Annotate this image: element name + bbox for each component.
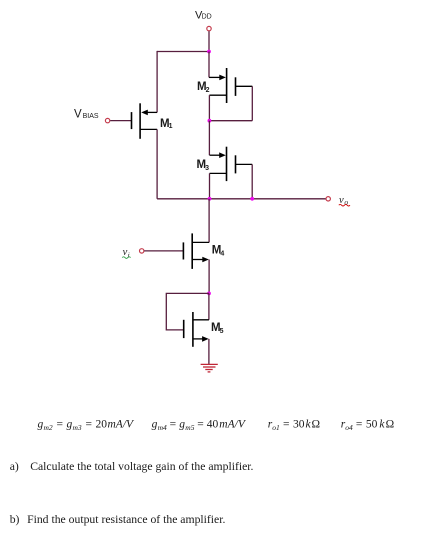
svg-text:V: V [74, 108, 82, 120]
node VBIAS label [74, 108, 99, 120]
wire M2 gate loop bottom [209, 120, 252, 122]
svg-text:Ω: Ω [386, 419, 395, 431]
svg-text:1: 1 [169, 123, 173, 130]
value label ro4=50k [341, 419, 394, 432]
wire M1 drain down to output rail [156, 129, 158, 198]
svg-text:o1: o1 [272, 423, 280, 432]
wire junction to M2 source [208, 52, 210, 78]
wire M4 source down to M5 node [208, 260, 210, 294]
node vo label [339, 195, 348, 207]
transistor M3 [210, 147, 253, 181]
svg-text:40: 40 [207, 419, 219, 431]
value label gm2=gm3=20mA/V [38, 419, 136, 432]
wire M2 gate loop right vertical [251, 86, 253, 120]
svg-text:=: = [197, 419, 204, 431]
wire left vertical to M1 source [156, 51, 158, 113]
svg-text:=: = [283, 419, 290, 431]
squiggly underline vo [339, 204, 350, 206]
question a [10, 460, 254, 473]
svg-text:2: 2 [206, 87, 210, 94]
node VDD label [195, 9, 212, 21]
wire node to M5 drain [208, 293, 210, 319]
wire VBIAS to M1 gate [110, 120, 131, 122]
wire VDD to top rail junction [208, 31, 210, 51]
ground [201, 364, 218, 372]
svg-text:b): b) [10, 513, 20, 526]
svg-text:=: = [86, 419, 93, 431]
value label ro1=30k [268, 419, 320, 432]
wire M5 source to ground [208, 339, 210, 365]
question b [10, 513, 226, 526]
node M5 gate-drain junction [207, 292, 211, 296]
value label gm4=gm5=40mA/V [152, 419, 247, 432]
wire M3 gate loop to output rail [251, 164, 253, 198]
svg-text:DD: DD [202, 14, 212, 21]
node output rail right junction [250, 197, 254, 201]
node output rail left junction [208, 197, 212, 201]
svg-text:4: 4 [220, 250, 224, 257]
wire top rail [157, 51, 209, 53]
wire node to M3 source [208, 121, 210, 156]
wire output rail [157, 198, 326, 200]
svg-text:Ω: Ω [312, 419, 321, 431]
svg-text:Calculate the total voltage ga: Calculate the total voltage gain of the … [30, 460, 253, 473]
svg-text:m5: m5 [185, 423, 194, 432]
wire M5 gate loop [166, 293, 209, 330]
svg-text:30: 30 [293, 419, 305, 431]
svg-text:5: 5 [220, 328, 224, 335]
svg-text:a): a) [10, 460, 19, 473]
svg-text:50: 50 [366, 419, 378, 431]
svg-text:=: = [356, 419, 363, 431]
svg-text:20: 20 [96, 419, 108, 431]
node junction at VDD rail [207, 50, 211, 54]
wire output rail down to M4 drain [208, 199, 210, 243]
svg-text:o4: o4 [345, 423, 353, 432]
svg-text:=: = [57, 419, 64, 431]
svg-text:BIAS: BIAS [83, 113, 99, 120]
node M2 drain junction [208, 119, 212, 123]
terminal VBIAS [105, 118, 109, 122]
node vi label [123, 247, 130, 259]
svg-text:3: 3 [205, 165, 209, 172]
terminal VDD [207, 26, 211, 30]
svg-text:mA/V: mA/V [219, 419, 247, 431]
svg-text:m4: m4 [158, 423, 167, 432]
transistor M2 [209, 68, 252, 103]
squiggly underline vi [122, 257, 130, 259]
wire M3 drain to output rail [209, 173, 211, 198]
svg-text:m3: m3 [73, 423, 82, 432]
terminal vo [326, 197, 330, 201]
terminal vi [140, 249, 144, 253]
svg-text:m2: m2 [44, 423, 53, 432]
svg-text:mA/V: mA/V [108, 419, 136, 431]
wire M2 drain to node [208, 95, 210, 121]
svg-text:Find the output resistance of: Find the output resistance of the amplif… [27, 513, 225, 526]
wire vi to M4 gate [144, 250, 183, 252]
transistor M5 [184, 312, 209, 347]
svg-text:k: k [379, 419, 385, 431]
transistor M1 [132, 103, 158, 139]
transistor M4 [183, 233, 209, 269]
svg-text:=: = [170, 419, 177, 431]
